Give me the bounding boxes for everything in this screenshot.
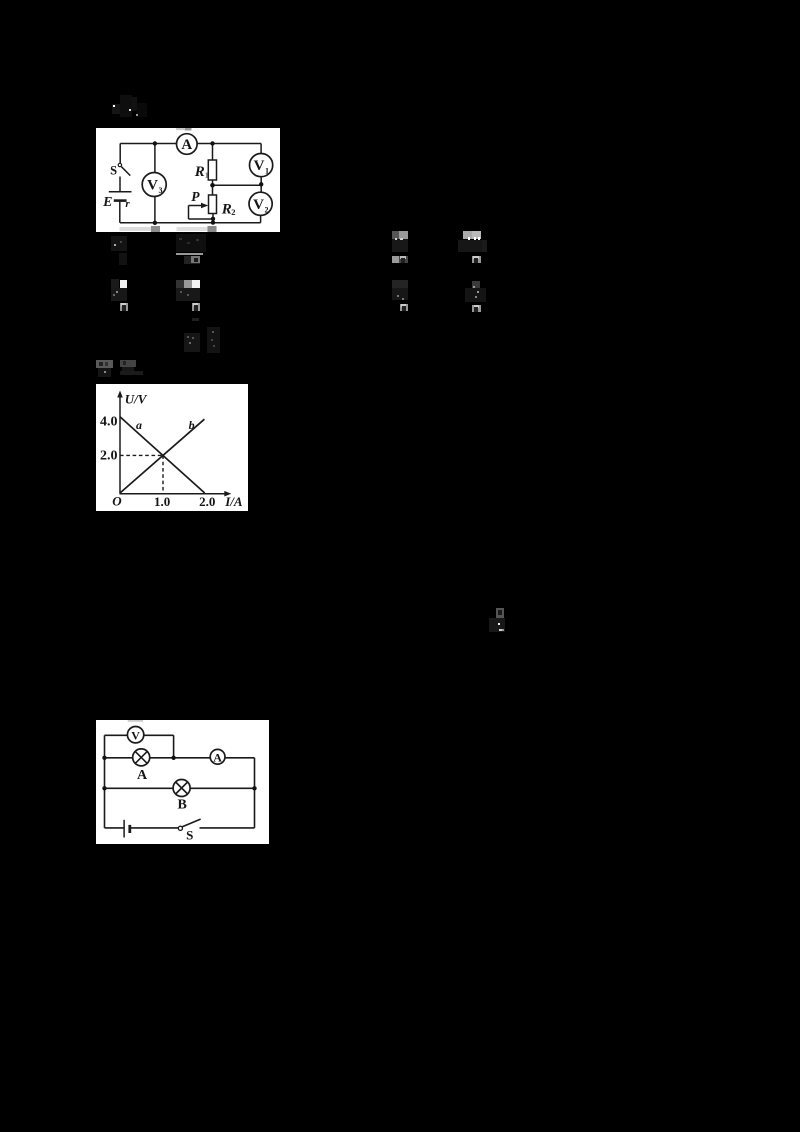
- svg-text:a: a: [136, 418, 142, 432]
- svg-text:2: 2: [265, 205, 269, 214]
- svg-text:3: 3: [159, 186, 163, 195]
- svg-text:A: A: [181, 137, 192, 153]
- svg-text:1: 1: [265, 167, 269, 176]
- svg-text:b: b: [189, 418, 195, 432]
- svg-text:V: V: [131, 728, 140, 742]
- svg-text:1: 1: [205, 171, 209, 180]
- svg-text:R: R: [221, 202, 232, 218]
- svg-text:2: 2: [231, 207, 235, 217]
- svg-text:A: A: [137, 768, 148, 783]
- svg-text:2.0: 2.0: [100, 449, 118, 464]
- svg-text:r: r: [125, 198, 130, 210]
- svg-text:1.0: 1.0: [154, 494, 170, 509]
- svg-text:V: V: [253, 197, 264, 213]
- svg-text:P: P: [191, 189, 200, 204]
- svg-text:4.0: 4.0: [100, 415, 118, 430]
- svg-text:V: V: [147, 178, 158, 194]
- svg-text:O: O: [112, 494, 122, 509]
- svg-text:U/V: U/V: [125, 392, 148, 407]
- svg-text:I/A: I/A: [224, 494, 243, 509]
- svg-text:V: V: [254, 158, 265, 174]
- svg-text:A: A: [213, 750, 222, 764]
- svg-text:R: R: [194, 164, 205, 180]
- svg-text:B: B: [178, 798, 187, 813]
- svg-text:S: S: [186, 828, 193, 843]
- svg-text:2.0: 2.0: [199, 494, 215, 509]
- svg-text:E: E: [102, 195, 112, 210]
- svg-text:S: S: [110, 164, 117, 178]
